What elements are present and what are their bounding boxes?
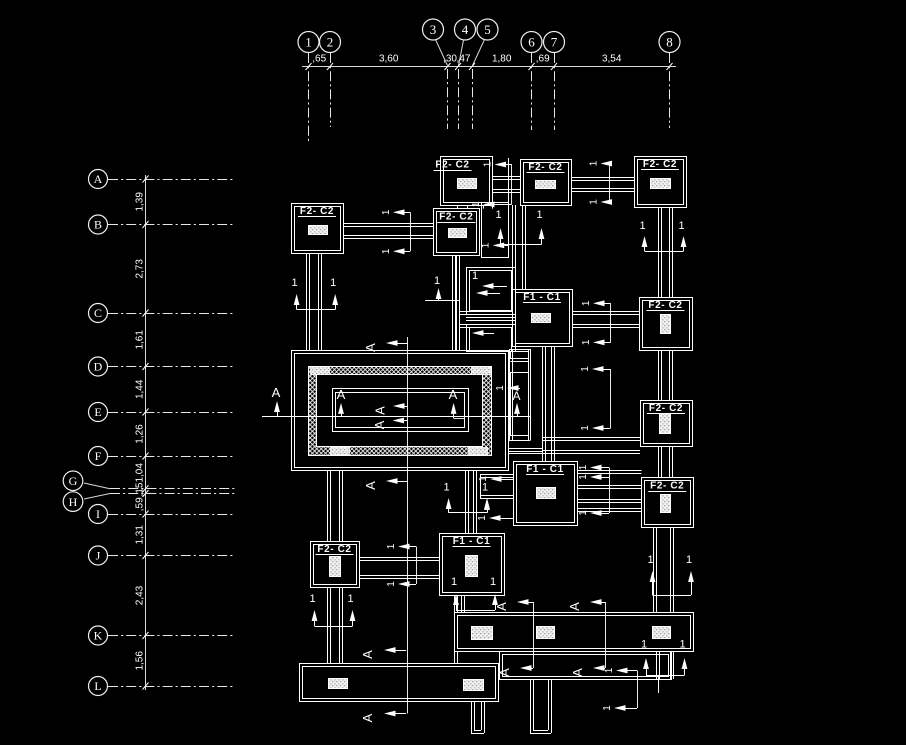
tie beam C/6 left [459,311,512,313]
grid bubble H [63,492,83,512]
tie beam H/6 to I/8 lower [577,499,642,501]
dim tick row A [143,176,149,183]
svg-text:K: K [94,629,103,643]
svg-text:A: A [94,172,103,186]
grid bubble L [89,677,108,696]
grid line 8 (vertical) [669,53,671,128]
grid bubble D [89,357,108,376]
K strip left edge connector [454,651,456,663]
svg-text:1: 1 [495,209,501,221]
svg-text:F2- C2: F2- C2 [528,162,562,173]
strip K column 2 [537,627,555,639]
svg-text:1: 1 [347,593,353,605]
pit inner rect [333,389,469,432]
svg-text:A: A [449,387,458,402]
grid line D (horizontal) [108,366,233,368]
svg-text:8: 8 [666,35,673,50]
arrow up H6 left [484,499,490,510]
grid bubble J [89,546,108,565]
svg-text:1: 1 [578,464,589,470]
grid bubble 2 [320,32,341,53]
tie beam col8 I-K [653,527,655,612]
grid bubble 7 [544,32,565,53]
tie beam H/6 to I/8 upper [577,470,642,472]
svg-text:1: 1 [330,277,336,289]
svg-text:1: 1 [641,639,647,651]
grid line J (horizontal) [108,555,233,557]
grid bubble 1 [298,32,319,53]
arrow pad box 2 [476,290,488,296]
grid bubble 6 [521,32,542,53]
svg-text:1: 1 [477,515,488,521]
dim tick col 3 [445,63,451,70]
svg-text:4: 4 [462,22,469,37]
svg-text:1,56: 1,56 [135,651,146,671]
dim tick col 2 [327,63,333,70]
svg-text:1: 1 [490,576,496,588]
svg-text:,59: ,59 [135,497,146,511]
leader bubble H [84,494,110,500]
tie beam A/6-7 to A/8 [571,177,634,179]
footing F1 - C1 (H/6) [514,462,578,526]
footing F2- C2 (B/1-2) [292,204,344,254]
svg-text:1: 1 [536,209,542,221]
pit corner block top-left [311,367,330,375]
svg-text:F2- C2: F2- C2 [650,481,684,492]
svg-text:1: 1 [471,201,482,207]
svg-text:1: 1 [292,277,298,289]
grid bubble 3 [423,19,444,40]
svg-text:1: 1 [481,242,492,248]
svg-text:1: 1 [647,554,653,566]
leader bubble G [84,483,110,489]
svg-text:A: A [360,650,375,659]
arrow pad box lower [472,330,484,336]
svg-text:1: 1 [482,482,488,494]
tail line beam A2-A3 [609,164,611,203]
dim tick row L [143,683,149,690]
svg-text:1: 1 [581,300,592,306]
tail line beam B1-B2 [410,212,412,251]
dim tick row J [143,552,149,559]
svg-text:1,39: 1,39 [135,192,146,212]
tie beam col8 A-C [658,208,660,298]
svg-text:F2- C2: F2- C2 [649,403,683,414]
section line 2 (x=605) [605,602,607,668]
grid line L (horizontal) [108,686,233,688]
svg-text:F1 - C1: F1 - C1 [523,292,561,303]
tie beam col2 J/2 to L-strip [327,587,329,663]
grid line G (horizontal) [110,488,235,490]
grid bubble I [89,505,108,524]
grid bubble C [89,304,108,323]
leader bubble 4 [459,40,464,66]
pit corner block top-right [472,367,491,375]
svg-text:1: 1 [386,543,397,549]
svg-text:F1 - C1: F1 - C1 [526,464,564,475]
svg-text:A: A [337,387,346,402]
svg-text:2: 2 [327,35,334,50]
pad box connector lines [466,317,515,319]
svg-text:2,43: 2,43 [135,585,146,605]
svg-text:,15: ,15 [135,482,146,496]
svg-text:E: E [94,405,101,419]
dim tick row K [143,632,149,639]
svg-text:F1 - C1: F1 - C1 [453,536,491,547]
stub A/3-5 to B/3-5 right [483,206,485,209]
svg-text:1: 1 [381,209,392,215]
grid bubble A [89,170,108,189]
svg-text:1,04: 1,04 [135,463,146,483]
footing F2- C2 (A/3-5) [434,157,493,206]
grid line 5 (vertical) [472,69,474,129]
section line 1 (x=533) [533,602,535,668]
tie beam col4 J/4 to K-strip [454,595,456,612]
dim tick row D [143,363,149,370]
svg-text:1,61: 1,61 [135,330,146,350]
svg-text:1: 1 [589,160,600,166]
svg-text:B: B [94,218,102,232]
tie beam row E left stub [509,448,543,450]
tie beam col6 C to H [542,346,544,461]
section line A-A vertical [407,337,409,714]
grid line C (horizontal) [108,313,233,315]
dim tick row G [143,485,149,492]
svg-text:C: C [94,306,102,320]
svg-text:1: 1 [444,482,450,494]
pit horizontal centerline [262,416,531,418]
svg-text:1: 1 [580,425,591,431]
svg-text:1: 1 [581,339,592,345]
dim tick row I [143,511,149,518]
svg-text:1: 1 [686,554,692,566]
stub below L-strip [471,701,473,733]
grid line 7 (vertical) [554,53,556,130]
small line below K2 right [658,676,660,693]
pit hatched band [308,366,491,455]
svg-text:F2- C2: F2- C2 [317,544,351,555]
svg-text:1: 1 [679,639,685,651]
svg-text:1: 1 [483,161,494,167]
strip L column 2 [464,680,484,691]
svg-text:1: 1 [434,275,440,287]
svg-text:L: L [94,679,101,693]
tie beam col2 pit to J/2 [327,470,329,541]
tie beam col8 C-E [658,350,660,400]
tail line beam A1-A2 [511,164,513,205]
grid line 2 (vertical) [330,53,332,127]
grid bubble 4 [455,19,476,40]
svg-text:1: 1 [602,705,613,711]
tie beam H/6 left stub [480,474,513,476]
strip L column 1 [329,679,348,689]
grid line B (horizontal) [108,224,233,226]
footing F2- C2 (I/8) [642,478,694,528]
svg-text:1,31: 1,31 [135,525,146,545]
svg-text:A: A [373,406,388,415]
strip K column 1 [472,627,493,640]
dim tick row E [143,409,149,416]
svg-text:F2- C2: F2- C2 [435,159,469,170]
svg-text:1,26: 1,26 [135,424,146,444]
dim tick row F [143,453,149,460]
stub below K2-strip [530,679,532,733]
tie beam B/1-2 to B/3-5 [343,223,433,225]
tail line beam C6-C8 [610,303,612,342]
tail line row-E beam [610,369,612,428]
dim tick col 8 [667,63,673,70]
footing F2- C2 (B/3-5) [434,209,480,256]
svg-text:F2- C2: F2- C2 [300,206,334,217]
svg-text:1: 1 [578,474,589,480]
svg-text:A: A [363,481,378,490]
dim tick row C [143,310,149,317]
svg-text:,65: ,65 [312,54,326,65]
tie beam row E horizontal [543,437,641,439]
svg-text:1,80: 1,80 [492,54,512,65]
grid line I (horizontal) [108,514,233,516]
tie beam col3-4 B to pit [452,255,454,350]
dim tick col 5 [469,63,475,70]
left dimension line [145,175,147,690]
footing F2- C2 (J/2) [311,542,360,588]
svg-text:A: A [567,602,582,611]
dim tick col 6 [529,63,535,70]
leader bubble 5 [473,40,485,66]
bracket outline right of B/3-5 [482,203,509,258]
strip K column 3 [653,627,671,639]
svg-text:1: 1 [472,270,478,282]
tail line beam J2-J4 [416,547,418,585]
strip footing K2 (lower right) [500,652,672,680]
footing F2- C2 (A/6-7) [521,160,572,206]
svg-text:A: A [363,343,378,352]
grid bubble 8 [659,32,680,53]
grid line H (horizontal) [110,493,235,495]
tie beam A/3-5 to A/6-7 [492,176,520,178]
dim tick row H [143,490,149,497]
svg-text:A: A [272,385,281,400]
stub line col5-6 upper [508,158,510,202]
svg-text:1: 1 [589,199,600,205]
svg-text:7: 7 [551,35,558,50]
footing F1 - C1 (J/4) [440,534,505,596]
svg-text:1,44: 1,44 [135,379,146,399]
svg-text:3,54: 3,54 [602,54,622,65]
svg-text:F2- C2: F2- C2 [648,300,682,311]
footing F2- C2 (C/8) [640,298,693,351]
svg-text:1: 1 [578,510,589,516]
grid line 3 (vertical) [447,69,449,129]
grid bubble B [89,215,108,234]
dim tick col 7 [551,63,557,70]
svg-text:1: 1 [678,220,684,232]
grid bubble F [89,447,108,466]
svg-text:1: 1 [639,220,645,232]
footing F1 - C1 (C/6) [513,290,573,347]
tie beam J/2 to J/4 [359,557,439,559]
svg-text:6: 6 [528,35,535,50]
grid line K (horizontal) [108,635,233,637]
grid line 1 (vertical) [308,53,310,143]
svg-text:1: 1 [386,581,397,587]
tail line H6 right [609,468,611,514]
grid line E (horizontal) [108,412,233,414]
svg-text:1: 1 [451,576,457,588]
svg-text:H: H [69,495,78,509]
svg-text:1: 1 [309,593,315,605]
svg-text:3: 3 [430,22,437,37]
svg-text:,30: ,30 [443,54,457,65]
arrow pad box 1 [482,283,494,289]
strip footing K [455,613,694,652]
svg-text:1: 1 [381,248,392,254]
svg-text:A: A [512,389,520,403]
pit inner line at A marker [454,418,465,420]
svg-text:F: F [95,449,102,463]
pad box 2 [467,325,516,352]
svg-text:1: 1 [604,667,615,673]
footing F2- C2 (A/8) [635,157,687,208]
grid line 4 (vertical) [458,69,460,129]
svg-text:A: A [372,420,387,429]
tie beam col8 E-I [658,447,660,478]
grid bubble 5 [477,19,498,40]
svg-text:G: G [69,474,78,488]
footing F2- C2 (E/8) [641,401,693,447]
grid bubble G [63,471,83,491]
svg-text:F2- C2: F2- C2 [439,212,473,223]
svg-text:I: I [96,507,100,521]
svg-text:1: 1 [495,385,506,391]
svg-text:1: 1 [580,366,591,372]
grid line A (horizontal) [108,179,233,181]
svg-text:D: D [94,360,103,374]
pad box between B/3-5 and F1-C1 [467,268,516,315]
small shaft col5-6 [509,349,511,440]
pit outer wall [292,351,509,471]
svg-text:,47: ,47 [457,54,471,65]
grid bubble K [89,626,108,645]
svg-text:,69: ,69 [536,54,550,65]
svg-text:1: 1 [305,35,312,50]
grid bubble E [89,403,108,422]
svg-text:5: 5 [484,22,491,37]
strip footing L [300,664,499,702]
tie beam col1-2 B to pit [306,253,308,350]
top dimension line [302,66,676,68]
stub A/3-5 to B/3-5 left [457,206,459,209]
tie beam C/6 to C/8 [572,311,639,313]
svg-text:A: A [570,668,585,677]
dim tick row B [143,221,149,228]
leader bubble 3 [436,40,448,66]
svg-text:A: A [497,668,512,677]
svg-text:3,60: 3,60 [379,54,399,65]
dim tick col 1 [306,63,312,70]
tie beam col4 pit to J/4 [465,470,467,533]
tail line bottom right [637,671,639,709]
dim tick col 4 [455,63,461,70]
svg-text:A: A [360,713,375,722]
tie beam col5-6 A to C [512,205,514,289]
col8 beam K to K2 [656,651,658,679]
svg-text:J: J [96,549,101,563]
grid line F (horizontal) [108,456,233,458]
pit corner block bottom-left [331,448,350,455]
pit corner block bottom-right [469,448,488,455]
svg-text:F2- C2: F2- C2 [643,159,677,170]
svg-text:2,73: 2,73 [135,259,146,279]
grid line 6 (vertical) [531,53,533,130]
